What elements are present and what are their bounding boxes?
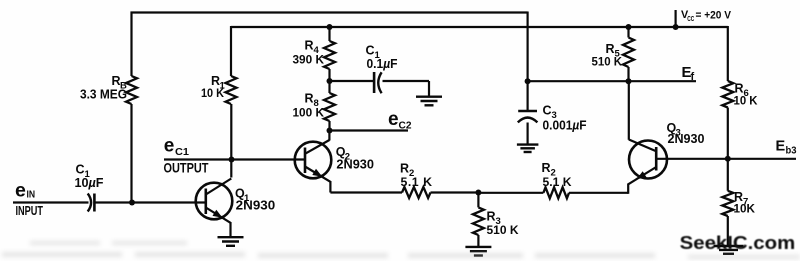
wire top rail 2 — [231, 26, 728, 28]
wire RB bottom lead — [130, 104, 132, 204]
svg-text:CC: CC — [687, 14, 694, 23]
wire R2 to Q3 emitter — [569, 192, 628, 194]
label eC1 — [164, 136, 190, 159]
watermark SeekIC.com — [680, 232, 796, 253]
wire R8 bottom lead — [328, 121, 330, 131]
svg-text:C: C — [76, 163, 85, 177]
resistor R7 10K — [722, 190, 755, 216]
transistor Q2 2N930 — [295, 140, 374, 182]
label eIN — [15, 180, 35, 202]
wire node to R2 (right) — [478, 192, 543, 194]
wire C1 0.1uF left lead — [330, 80, 375, 82]
wire R5 top lead — [627, 26, 629, 38]
svg-text:R: R — [305, 92, 314, 106]
svg-text:IN: IN — [27, 190, 36, 201]
svg-text:510 K: 510 K — [592, 55, 623, 69]
node R5 top on rail 2 — [626, 24, 632, 30]
wire R4 chain top lead — [328, 26, 330, 41]
node R5/Ef/Q3 collector junction — [626, 78, 632, 84]
resistor RB 3.3 MEG — [80, 74, 137, 104]
wire C1 0.1uF right lead — [383, 80, 430, 82]
wire Q3 base to Eb3 node — [656, 158, 728, 160]
ground under R3 — [465, 247, 491, 256]
label Vcc = +20V — [681, 9, 732, 23]
svg-text:C2: C2 — [399, 121, 412, 132]
svg-text:510 K: 510 K — [487, 223, 519, 237]
svg-text:5.1 K: 5.1 K — [543, 175, 572, 189]
wire R1 bottom lead / Q1 collector riser — [230, 104, 232, 178]
wire R4-R8 link — [328, 69, 330, 93]
svg-text:10 K: 10 K — [734, 94, 758, 108]
wire R7 top lead — [727, 159, 729, 191]
ground under C3 — [517, 145, 539, 152]
node Eb3 junction — [725, 156, 731, 162]
node eC1/Q1 collector junction — [229, 157, 235, 163]
wire RB top lead — [130, 12, 132, 77]
resistor R2 5.1K (right) — [542, 161, 572, 198]
svg-text:2N930: 2N930 — [336, 157, 374, 172]
label Ef — [682, 64, 695, 83]
wire R2 to R3 node — [431, 191, 479, 193]
resistor R6 10K — [722, 81, 757, 108]
svg-text:R: R — [305, 39, 314, 53]
wire R7 bottom lead — [727, 216, 729, 246]
node RB/input junction — [129, 200, 135, 206]
node Vcc on rail 2 — [673, 24, 679, 30]
capacitor C3 0.001uF — [518, 104, 587, 133]
svg-text:e: e — [15, 180, 26, 202]
svg-text:E: E — [776, 139, 786, 155]
wire Eb3 line — [728, 158, 796, 160]
svg-text:= +20 V: = +20 V — [696, 10, 732, 22]
wire R1 top lead — [230, 26, 232, 76]
svg-text:100 K: 100 K — [293, 106, 325, 120]
resistor R3 510K — [473, 207, 519, 237]
wire Q1 emitter lead — [229, 222, 231, 238]
power Vcc tick — [674, 10, 676, 27]
capacitor C1 10uF — [75, 163, 104, 212]
wire C3 bottom lead — [526, 123, 528, 145]
wire Q2 emitter drop — [329, 181, 331, 193]
wire rail1 to C3 vertical — [526, 12, 528, 112]
resistor R1 10K — [201, 74, 237, 104]
transistor Q3 2N930 — [628, 121, 704, 184]
svg-text:C1: C1 — [175, 147, 189, 158]
svg-text:R: R — [542, 161, 551, 175]
wire input line right — [94, 201, 205, 203]
wire R5 bottom lead — [627, 67, 629, 81]
svg-text:b3: b3 — [786, 146, 797, 157]
wire input line — [13, 201, 89, 203]
wire Ef line — [528, 80, 696, 82]
node R2/R2/R3 junction — [475, 190, 481, 196]
wire eC1 output line — [164, 158, 305, 160]
svg-text:0.001µF: 0.001µF — [543, 119, 587, 133]
svg-text:10µF: 10µF — [75, 176, 104, 190]
ground after C1 0.1uF — [416, 97, 442, 106]
resistor R5 510K — [592, 38, 635, 69]
svg-text:2N930: 2N930 — [668, 131, 705, 146]
svg-text:R: R — [400, 162, 409, 176]
svg-text:10 K: 10 K — [201, 86, 224, 100]
svg-text:e: e — [388, 109, 399, 130]
resistor R2 5.1K (left) — [400, 162, 433, 199]
svg-text:2N930: 2N930 — [236, 198, 276, 213]
svg-text:10K: 10K — [734, 202, 756, 216]
wire top rail 1 — [131, 11, 528, 13]
svg-text:5.1 K: 5.1 K — [401, 175, 433, 189]
node Ef/C3 junction — [525, 78, 531, 84]
svg-text:INPUT: INPUT — [16, 204, 44, 218]
svg-text:OUTPUT: OUTPUT — [164, 161, 209, 176]
wire R3 top lead — [477, 193, 479, 208]
resistor R4 390K — [293, 39, 336, 70]
wire eC2 line — [330, 129, 409, 131]
svg-text:f: f — [691, 71, 695, 83]
svg-text:3.3 MEG: 3.3 MEG — [80, 88, 127, 102]
label eC2 — [388, 109, 412, 132]
wire emitter line to R2 — [330, 191, 402, 193]
svg-text:SeekIC.com: SeekIC.com — [680, 232, 796, 253]
wire Q3 emitter riser — [627, 184, 629, 194]
capacitor C1 0.1uF — [366, 44, 398, 94]
ground under R7 — [714, 246, 744, 254]
transistor Q1 2N930 — [196, 179, 276, 223]
node R8/eC2/Q2 collector junction — [327, 128, 333, 134]
svg-text:e: e — [164, 136, 175, 157]
ground Q1 emitter — [218, 237, 244, 246]
label Eb3 — [776, 139, 797, 157]
svg-text:390 K: 390 K — [293, 53, 325, 67]
wire R6 top lead — [727, 26, 729, 81]
wire to ground — [428, 81, 430, 97]
wire Q2 collector riser — [328, 131, 330, 141]
svg-text:0.1µF: 0.1µF — [367, 57, 398, 71]
wire Q3 collector riser — [628, 81, 630, 140]
wire R6 bottom lead — [727, 108, 729, 159]
node R4 top on rail 2 — [327, 24, 333, 30]
svg-text:C: C — [543, 104, 552, 118]
svg-text:C: C — [366, 44, 375, 58]
wire R3 bottom lead — [477, 235, 479, 247]
node R4/R8/C1 junction — [327, 78, 333, 84]
svg-text:R: R — [487, 210, 496, 224]
resistor R8 100K — [293, 92, 336, 122]
